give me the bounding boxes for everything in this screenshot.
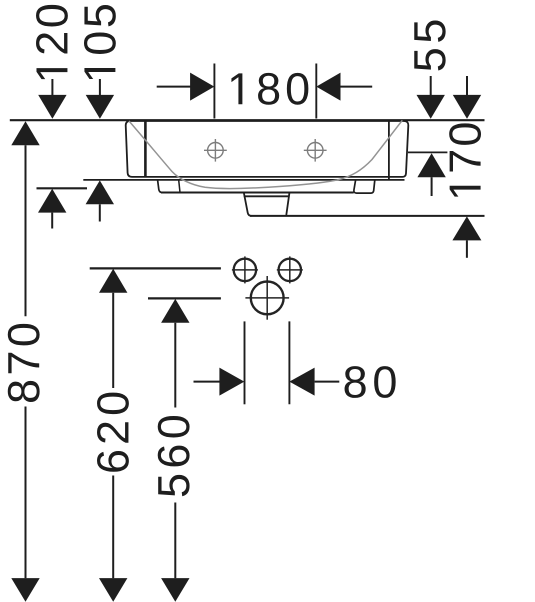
drain outlet level line (170 datum) (250, 215, 485, 217)
dimension 870 lower stem (25, 407, 27, 579)
dimension text 55 (rotated) (414, 21, 445, 71)
dimension 120 top stem (51, 79, 53, 96)
dimension 55 top stem (430, 76, 432, 96)
dimension 80 left extension line (244, 321, 246, 404)
dimension 120 lower datum line (37, 187, 88, 189)
dimension 170 bottom stem (466, 240, 468, 257)
dimension 180 left-pointing arrowhead (316, 73, 340, 101)
drain fitting left edge (244, 193, 252, 216)
dimension 170 top stem (466, 76, 468, 96)
dimension 105 bottom stem (99, 204, 101, 221)
dimension text 620 (rotated) (97, 393, 129, 472)
dimension 870 up arrowhead (11, 121, 39, 145)
dimension 180 right extension line (315, 64, 317, 119)
dimension text 80 (345, 366, 396, 398)
dimension 105 up arrowhead (below) (86, 180, 114, 204)
drain fitting right edge (286, 193, 289, 215)
dimension 80 right tail (315, 381, 340, 383)
dimension text 120 (rotated) (36, 5, 68, 79)
dimension text 870 (rotated) (8, 324, 40, 402)
supply hole crosshair left (bottom view) (232, 256, 258, 283)
dimension 870 upper stem (25, 145, 27, 316)
dimension 80 right-pointing arrowhead (219, 368, 244, 396)
dimension 120 up arrowhead (below) (38, 189, 66, 213)
tap hole crosshair left (side view) (204, 139, 227, 162)
dimension 170 up arrowhead (452, 216, 481, 240)
supply holes level line (620 datum) (90, 267, 221, 269)
wall reference line (top datum) (10, 119, 485, 121)
basin apron underside line (105 datum) (83, 179, 404, 181)
dimension 180 right-pointing arrowhead (190, 73, 214, 101)
dimension 80 left-pointing arrowhead (289, 368, 314, 396)
dimension 80 right extension line (288, 321, 290, 404)
basin inner wall left (144, 121, 147, 177)
dimension 620 up arrowhead (99, 269, 127, 293)
dimension 120 bottom stem (51, 213, 53, 229)
tap deck level line (55 datum) (408, 151, 447, 153)
tap hole crosshair right (side view) (304, 139, 327, 162)
dimension 55 bottom stem (431, 177, 433, 196)
dimension 170 down arrowhead (453, 95, 481, 119)
dimension 180 right tail (341, 86, 373, 88)
dimension text 170 (rotated) (449, 123, 481, 196)
drain hole level line (560 datum) (148, 297, 221, 299)
dimension 620 upper stem (112, 293, 114, 388)
dimension 80 left tail (194, 381, 221, 383)
dimension 560 lower stem (174, 503, 176, 579)
dimension 620 down arrowhead (99, 578, 127, 602)
basin body outline (126, 121, 409, 177)
dimension text 105 (rotated) (84, 5, 116, 79)
basin inner wall right (388, 121, 390, 180)
dimension text 180 (231, 73, 308, 105)
dimension 870 down arrowhead (11, 578, 39, 602)
dimension 560 upper stem (174, 323, 176, 408)
dimension 105 down arrowhead (86, 95, 114, 119)
left foot inner edge (179, 180, 180, 193)
dimension 180 left extension line (213, 64, 215, 119)
dimension 180 left tail (157, 86, 191, 88)
dimension 560 down arrowhead (161, 578, 189, 602)
dimension 55 down arrowhead (417, 95, 445, 119)
supply hole crosshair right (bottom view) (277, 256, 303, 283)
dimension 560 up arrowhead (161, 299, 189, 323)
dimension 620 lower stem (112, 476, 114, 579)
left foot outer edge (158, 180, 163, 193)
basin bowl profile curve (gray) (129, 120, 402, 188)
dimension 120 down arrowhead (38, 95, 66, 119)
right foot (354, 180, 375, 193)
basin lip bottom line (161, 192, 354, 194)
dimension text 560 (rotated) (158, 416, 190, 496)
waste hole crosshair large (bottom view) (245, 276, 289, 320)
dimension 105 top stem (99, 79, 101, 96)
drain fitting top line (244, 195, 290, 197)
dimension 55 up arrowhead (417, 153, 445, 177)
